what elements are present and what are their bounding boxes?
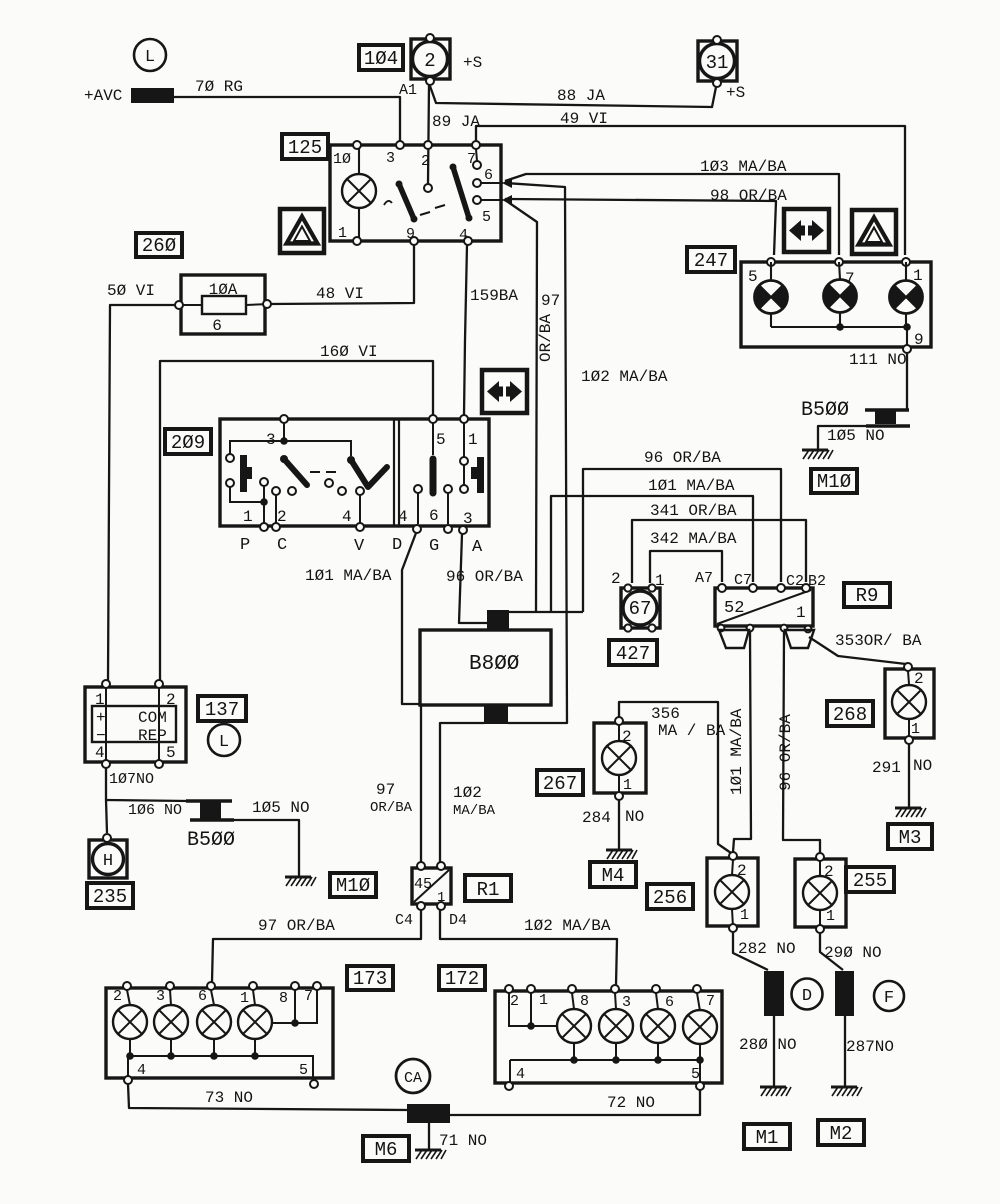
svg-text:52: 52 [724,599,744,618]
lamp cluster 173 box [106,988,333,1078]
label box 172 [439,966,485,990]
247 pin 9 [903,345,911,353]
junction arrow pin 6 [502,178,512,188]
svg-text:CA: CA [404,1070,422,1087]
svg-text:48 VI: 48 VI [316,285,364,303]
svg-text:+S: +S [463,54,482,72]
svg-text:1Ø5 NO: 1Ø5 NO [252,799,310,817]
fuse 260 box [181,275,265,334]
relay bottom tab left [719,630,749,648]
wire 291 NO from lamp 268 to ground M3 [908,743,910,807]
svg-text:31: 31 [706,52,729,74]
svg-text:1Ø2: 1Ø2 [453,784,482,802]
247 bottom bus [771,327,907,345]
connector 31 [698,36,737,87]
label box 137 [198,696,246,721]
wire 111 NO from 247 pin 9 to B500 [906,353,908,410]
svg-text:D: D [392,536,402,555]
svg-text:98 OR/BA: 98 OR/BA [710,187,787,205]
wire 71 NO from M6 to ground [428,1123,430,1149]
svg-text:REP: REP [138,727,167,745]
svg-text:247: 247 [694,250,728,272]
svg-text:+S: +S [726,84,745,102]
173 interior wiring [127,990,317,1082]
svg-text:3: 3 [266,431,276,449]
wire 97 OR/BA from B800 to relay 45 pin C4 [420,706,422,862]
svg-text:137: 137 [205,699,239,721]
svg-text:1: 1 [623,777,632,794]
label box M10 left [330,873,376,897]
wire 106 NO branch to B500 left [106,800,188,801]
svg-text:M1: M1 [756,1127,779,1149]
svg-text:4: 4 [398,508,408,526]
svg-text:1Ø2 MA/BA: 1Ø2 MA/BA [581,368,668,386]
svg-text:1Ø: 1Ø [333,151,351,168]
209 pin 1 top [460,415,468,423]
wire 280 NO from connector D to ground M1 [773,1016,775,1086]
svg-text:6: 6 [212,317,222,335]
209 right section interior [418,423,464,524]
svg-text:1Ø6 NO: 1Ø6 NO [128,802,182,819]
svg-text:7: 7 [706,993,715,1010]
clock unit 2 [411,34,450,85]
209 right end element [471,457,484,493]
209 interior left wiring [230,423,360,524]
svg-text:1Ø2 MA/BA: 1Ø2 MA/BA [524,917,611,935]
lamp 267 unit [594,717,646,800]
wire junction bus into B800 top tab right [509,611,583,613]
svg-text:C4: C4 [395,912,413,929]
wire 105 NO from B500 to ground M10 right [818,426,866,449]
svg-text:4: 4 [137,1062,146,1079]
svg-text:A1: A1 [399,82,417,99]
125 contact stubs to right edge [476,149,503,200]
stalk switch 209 box [220,419,489,526]
label box 173 [347,966,393,990]
svg-text:P: P [240,536,250,555]
lamp cluster 247 box [741,262,931,347]
209 blade 2 [351,460,387,487]
svg-text:D4: D4 [449,912,467,929]
relay top pins [718,584,726,592]
svg-text:282 NO: 282 NO [738,940,796,958]
svg-text:7: 7 [467,151,476,168]
wire 101 MA/BA from relay to lamp 256 pin 2 [733,631,751,852]
svg-text:3: 3 [463,510,473,528]
wire 284 NO from lamp 267 to ground M4 [618,799,620,849]
svg-text:1Ø3 MA/BA: 1Ø3 MA/BA [700,158,787,176]
connector D [764,971,784,1016]
svg-text:OR/BA: OR/BA [537,314,555,362]
svg-text:1Ø7NO: 1Ø7NO [109,771,154,788]
172 interior wiring [509,993,700,1083]
wire 89 JA from clock 2 to 125 pin 2 contact [428,85,429,184]
svg-text:1Ø5 NO: 1Ø5 NO [827,427,885,445]
svg-text:4: 4 [95,744,105,762]
svg-text:4: 4 [516,1066,525,1083]
svg-text:96 OR/BA: 96 OR/BA [446,568,523,586]
209 bottom pins left [260,523,268,531]
svg-text:1ØA: 1ØA [209,281,238,299]
svg-text:8: 8 [580,993,589,1010]
wire 98 OR/BA from junction to 247 pin 5 [505,199,776,255]
svg-text:2: 2 [166,691,176,709]
svg-text:MA/BA: MA/BA [453,803,496,819]
wire 50 VI from fuse to COM/REP pin 1 [108,305,177,680]
wire 356 MA/BA from lamp 267 pin 2 to lamp 256 pin 2 [619,702,731,853]
svg-text:B5ØØ: B5ØØ [187,829,235,852]
flasher relay 45 R1 [412,868,451,904]
label box 235 [87,883,133,908]
label box M3 [888,824,932,849]
svg-text:26Ø: 26Ø [142,235,176,257]
svg-text:4: 4 [459,227,468,244]
wire 101 MA/BA from 209 pin G to B800 lower left [402,533,419,704]
svg-text:5: 5 [482,209,491,226]
wire 102 MA/BA from relay 45 D4 to cluster 172 pin 3 [440,910,617,985]
connector B800 box [420,630,551,705]
wire 70 RG from +AVC to 125 pin 3 [174,97,400,141]
209 bottom pins right [413,525,421,533]
wire 88 JA from clock 2 to connector 31 [430,86,716,107]
svg-text:OR/BA: OR/BA [370,800,413,816]
connector B500 left [186,801,234,820]
svg-text:111 NO: 111 NO [849,351,907,369]
relay diagonal [717,590,811,624]
wire 353 OR/BA from relay tab to lamp 268 pin 2 [809,637,907,664]
svg-text:5: 5 [299,1062,308,1079]
svg-text:89 JA: 89 JA [432,113,480,131]
label box 125 [282,134,328,159]
svg-text:267: 267 [543,773,577,795]
svg-text:MA / BA: MA / BA [658,722,726,740]
lamp inside 125 [342,145,376,241]
ground M3 [895,808,926,817]
wire 290 NO from lamp 255 to connector F [820,933,843,970]
svg-text:1Ø1 MA/BA: 1Ø1 MA/BA [648,477,735,495]
svg-text:5: 5 [748,268,758,286]
svg-text:2: 2 [737,862,747,880]
wire 159 BA from 125 pin 4 to 209 pin 1 [464,245,467,415]
wire 96 OR/BA from relay to lamp 255 pin 2 [783,631,820,853]
label box 267 [537,770,583,795]
connector F [835,971,854,1016]
wire 287 NO from connector F to ground M2 [844,1016,846,1086]
connector B500 right [865,410,910,426]
label box M2 [818,1120,864,1145]
svg-text:5: 5 [436,431,446,449]
svg-text:NO: NO [625,808,644,826]
svg-text:1: 1 [911,721,920,738]
svg-text:356: 356 [651,705,680,723]
B800 bottom tab [484,705,508,724]
svg-text:C7: C7 [734,572,752,589]
209 blade 1 [284,459,307,485]
wire 103 MA/BA from junction to 247 pin 7 [505,174,839,255]
B800 top tab [487,610,509,630]
svg-text:7Ø RG: 7Ø RG [195,78,243,96]
svg-text:1: 1 [539,992,548,1009]
247 lamp 7 [824,262,857,327]
svg-text:C2: C2 [786,573,804,590]
wire 342 MA/BA row 67 pin1 to relay A7 [650,551,722,583]
wire 48 VI from fuse to 125 pin 9 [269,245,414,304]
209 divider double line [394,419,399,526]
svg-text:3: 3 [156,988,165,1005]
svg-text:284: 284 [582,809,611,827]
125 switch blade 2 [453,167,469,218]
247 lamp 1 [890,262,923,327]
svg-text:5: 5 [691,1066,700,1083]
hazard switch 125 box [330,145,501,241]
label box R1 [465,875,511,901]
svg-text:268: 268 [833,704,867,726]
double arrow icon near 247 [784,209,829,252]
wire 107 NO from COM/REP pin 4 to horn H [106,768,107,833]
173 lamps [113,1005,147,1039]
double arrow icon near 209 [482,370,527,413]
wire 102 MA/BA vertical from junction to B800 bottom tab [505,183,567,723]
svg-text:M1Ø: M1Ø [336,875,370,897]
svg-text:1: 1 [95,691,105,709]
svg-text:COM: COM [138,709,167,727]
svg-text:97: 97 [541,292,560,310]
svg-text:88 JA: 88 JA [557,87,605,105]
svg-text:B2: B2 [808,573,826,590]
connector +AVC [131,88,174,103]
svg-text:6: 6 [665,994,674,1011]
svg-text:C: C [277,536,287,555]
svg-text:255: 255 [853,870,887,892]
svg-text:73 NO: 73 NO [205,1089,253,1107]
label box 256 [647,884,693,909]
svg-text:NO: NO [913,757,932,775]
svg-text:1: 1 [655,572,665,590]
172 lamps [557,1009,591,1043]
svg-text:28Ø NO: 28Ø NO [739,1036,797,1054]
label box 260 [136,233,182,257]
209 contact circles left section [226,454,234,462]
wire 282 NO from lamp 256 to connector D [733,932,768,970]
svg-text:3: 3 [622,994,631,1011]
svg-text:96 OR/BA: 96 OR/BA [777,714,795,791]
wire 96 OR/BA row to relay C2 [583,469,781,612]
125 thermal squiggle [384,201,392,205]
svg-text:2: 2 [824,863,834,881]
svg-text:H: H [103,852,113,871]
wire 49 VI from 125 pin 7 to 247 pin 1 [476,126,905,255]
ground M1 [760,1087,791,1096]
svg-text:16Ø VI: 16Ø VI [320,343,378,361]
label box 255 [846,867,894,892]
svg-text:29Ø NO: 29Ø NO [824,944,882,962]
wire 101 MA/BA row to relay C7 [551,496,753,612]
svg-text:1: 1 [240,990,249,1007]
svg-text:5: 5 [166,744,176,762]
svg-text:172: 172 [445,968,479,990]
clock symbol L top left [134,39,166,71]
svg-text:1: 1 [913,267,923,285]
svg-text:D: D [802,987,812,1006]
svg-text:R1: R1 [477,879,500,901]
ground M6 [415,1150,446,1159]
connector M6 [407,1104,450,1123]
svg-text:A7: A7 [695,570,713,587]
flasher unit 67 [621,584,660,631]
svg-text:6: 6 [429,507,439,525]
173 top pins [123,982,131,990]
209 dashes [310,471,336,473]
svg-text:2: 2 [113,988,122,1005]
125 pin contacts top [353,141,361,149]
relay bottom tab right [785,630,814,648]
label box M10 right [811,469,857,493]
svg-text:173: 173 [353,968,387,990]
label box 247 [687,247,735,272]
125 switch contact circles [424,184,432,192]
svg-text:1: 1 [740,907,749,924]
svg-text:49 VI: 49 VI [560,110,608,128]
svg-text:9: 9 [406,226,415,243]
svg-text:M1Ø: M1Ø [817,471,851,493]
ground M10 left [285,877,316,886]
label box M1 [744,1124,790,1149]
svg-text:1Ø4: 1Ø4 [364,48,398,70]
svg-text:2: 2 [421,153,430,170]
lamp cluster 172 box [495,991,722,1083]
svg-text:M3: M3 [899,827,922,849]
hazard triangle icon left [280,209,324,253]
svg-text:342 MA/BA: 342 MA/BA [650,530,737,548]
svg-text:235: 235 [93,886,127,908]
svg-text:8: 8 [279,990,288,1007]
svg-text:1Ø1 MA/BA: 1Ø1 MA/BA [305,567,392,585]
svg-text:72 NO: 72 NO [607,1094,655,1112]
lamp 256 unit [707,852,758,932]
125 dashes [420,205,445,215]
fuse element [202,296,246,314]
svg-text:B5ØØ: B5ØØ [801,399,849,422]
relay bottom pins [718,625,725,632]
svg-text:67: 67 [629,598,652,620]
label box 427 [609,640,657,665]
ground M4 [606,850,637,859]
svg-text:96 OR/BA: 96 OR/BA [644,449,721,467]
svg-text:256: 256 [653,887,687,909]
letter D circle [792,979,823,1010]
172 top pins [505,985,513,993]
label box 209 [165,429,211,454]
wire 160 VI from COM/REP pin 2 to 209 pin 5 [160,361,433,680]
wire 72 NO from cluster 172 pin 5 to connector M6 [450,1090,700,1115]
svg-text:353OR/ BA: 353OR/ BA [835,632,922,650]
svg-text:1: 1 [796,604,806,622]
125 pin contacts bottom [353,237,361,245]
horn H 235 [89,834,127,878]
hazard triangle icon near 247 [852,210,896,254]
junction arrow pin 5 [502,195,512,205]
247 pin circles top [767,258,775,266]
lamp 268 unit [885,663,934,744]
svg-text:2: 2 [277,508,287,526]
wire 97 OR/BA from relay 45 C4 to cluster 173 pin 6 [212,910,421,982]
svg-text:+AVC: +AVC [84,87,122,105]
svg-text:L: L [219,733,229,752]
svg-text:M2: M2 [830,1123,853,1145]
svg-text:M4: M4 [602,865,625,887]
svg-text:V: V [354,537,365,556]
clock symbol L near 137 [208,724,240,756]
letter F circle [874,981,904,1011]
svg-text:R9: R9 [856,585,879,607]
125 switch blade 1 [399,184,414,219]
svg-text:L: L [145,48,155,67]
svg-text:71 NO: 71 NO [439,1132,487,1150]
svg-text:7: 7 [304,988,313,1005]
svg-text:9: 9 [914,331,924,349]
svg-text:2Ø9: 2Ø9 [171,432,205,454]
209 contact circles right section [414,485,422,493]
svg-text:6: 6 [484,167,493,184]
svg-text:341 OR/BA: 341 OR/BA [650,502,737,520]
svg-text:45: 45 [414,876,432,893]
svg-text:1: 1 [468,431,478,449]
wire 73 NO from cluster 173 pin 4 to connector M6 [128,1084,407,1110]
svg-text:B8ØØ: B8ØØ [469,653,519,676]
svg-text:M6: M6 [375,1139,398,1161]
svg-text:6: 6 [198,988,207,1005]
svg-text:4: 4 [342,508,352,526]
svg-text:1Ø1 MA/BA: 1Ø1 MA/BA [728,708,746,795]
wire 102 MA/BA from B800 tab to relay 45 pin D4 [440,723,484,862]
svg-text:427: 427 [616,643,650,665]
209 pin 3 top [280,415,288,423]
svg-text:−: − [96,727,106,745]
label box 268 [827,701,873,726]
svg-text:3: 3 [386,150,395,167]
svg-text:1: 1 [826,908,835,925]
lamp 255 unit [795,853,846,933]
svg-text:291: 291 [872,759,901,777]
circle CA [396,1059,430,1093]
svg-text:+: + [96,709,106,727]
svg-text:A: A [472,538,483,557]
209 right thick bar [430,459,437,493]
svg-text:1: 1 [338,225,347,242]
ground M10 right [802,450,833,459]
209 left park element [240,455,252,492]
247 lamp 5 [755,262,788,327]
ground M2 [831,1087,862,1096]
svg-text:97 OR/BA: 97 OR/BA [258,917,335,935]
svg-text:97: 97 [376,781,395,799]
svg-text:287NO: 287NO [846,1038,894,1056]
control unit COM REP 137 [85,687,186,762]
svg-text:7: 7 [845,270,855,288]
wire 341 OR/BA row 67 pin2 to relay B2 [632,520,806,583]
svg-text:159BA: 159BA [470,287,518,305]
label box 104 [359,45,403,70]
svg-text:1: 1 [437,890,445,906]
svg-text:F: F [884,989,894,1008]
209 pin 5 top [429,415,437,423]
svg-text:2: 2 [611,570,621,588]
svg-text:5Ø VI: 5Ø VI [107,282,155,300]
svg-text:2: 2 [914,670,924,688]
wire 97 OR/BA vertical from junction to B800 [505,200,537,612]
svg-text:2: 2 [424,50,435,72]
label box R9 [844,583,890,607]
